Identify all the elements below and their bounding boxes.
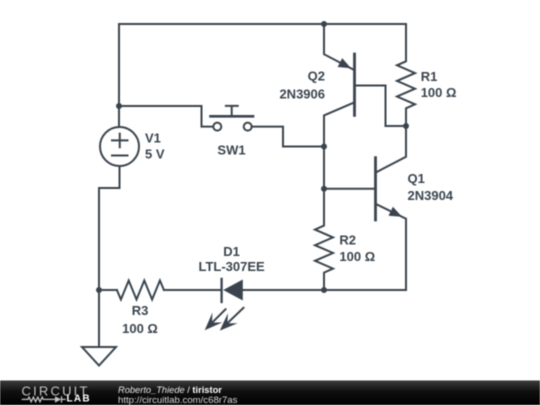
transistor Q2 base wire to node E (355, 86, 407, 127)
wire bottom rail left segment (99, 289, 117, 291)
transistor Q1 emitter arrow (NPN) (389, 207, 403, 217)
node F Q1 base junction (321, 186, 327, 192)
voltage source V1 (100, 127, 139, 166)
svg-text:R1: R1 (421, 69, 438, 84)
wire node1 to V1 top (118, 106, 120, 127)
svg-text:100 Ω: 100 Ω (122, 321, 158, 336)
LED D1 light emission arrow 2 (220, 308, 244, 331)
svg-text:5 V: 5 V (145, 147, 165, 162)
node A top-rail junction to Q2 emitter (321, 21, 327, 27)
svg-text:R3: R3 (132, 303, 149, 318)
wire Q2 collector to Q1 base junction (323, 147, 325, 189)
transistor Q1 base bar (374, 158, 377, 220)
svg-text:R2: R2 (339, 232, 356, 247)
wire top rail from V1 branch up and across to R1 (119, 24, 406, 106)
ground (82, 347, 116, 366)
svg-text:100 Ω: 100 Ω (421, 85, 457, 100)
CircuitLab logo squiggle resistor+diode (22, 396, 66, 402)
svg-text:Q1: Q1 (408, 171, 425, 186)
wire node1 to SW1 left terminal (119, 106, 213, 127)
wire LED to bottom-right rail (243, 289, 406, 291)
resistor R1 (397, 24, 415, 126)
svg-text:V1: V1 (145, 131, 161, 146)
svg-text:D1: D1 (223, 244, 240, 259)
node E R1/Q2 base/Q1 collector junction (403, 123, 409, 129)
svg-text:SW1: SW1 (217, 143, 245, 158)
svg-text:2N3906: 2N3906 (279, 87, 325, 102)
transistor Q2 emitter wire (324, 24, 355, 70)
LED D1 light emission arrow 1 (205, 309, 226, 330)
transistor Q1 emitter wire (376, 204, 407, 290)
transistor Q2 base bar (353, 54, 356, 115)
wire V1 bottom to left rail down (99, 166, 120, 290)
wire R3 to LED (164, 289, 222, 291)
svg-text:http://circuitlab.com/c68r7as: http://circuitlab.com/c68r7as (118, 395, 238, 405)
transistor Q1 collector wire (376, 126, 407, 173)
svg-text:2N3904: 2N3904 (408, 188, 454, 203)
svg-text:100 Ω: 100 Ω (339, 249, 375, 264)
node B junction V1/SW1 (116, 103, 122, 109)
svg-text:Roberto_Thiede / tiristor: Roberto_Thiede / tiristor (118, 385, 222, 395)
LED D1 (222, 279, 243, 302)
svg-text:Q2: Q2 (308, 69, 325, 84)
transistor Q1 base wire (324, 188, 376, 190)
node D SW1/Q2 collector junction (321, 144, 327, 150)
node C bottom-left junction (96, 287, 102, 293)
switch SW1 (211, 106, 254, 131)
svg-text:LTL-307EE: LTL-307EE (198, 259, 265, 274)
svg-text:LAB: LAB (67, 394, 91, 405)
transistor Q2 collector wire (324, 102, 355, 146)
resistor R2 (315, 189, 333, 290)
wire SW1 right terminal to node D (252, 127, 324, 147)
node G bottom rail junction (321, 287, 327, 293)
resistor R3 (117, 281, 164, 300)
footer bar (0, 381, 540, 405)
transistor Q2 emitter arrow (PNP) (338, 58, 351, 68)
wire ground stub (98, 290, 100, 347)
